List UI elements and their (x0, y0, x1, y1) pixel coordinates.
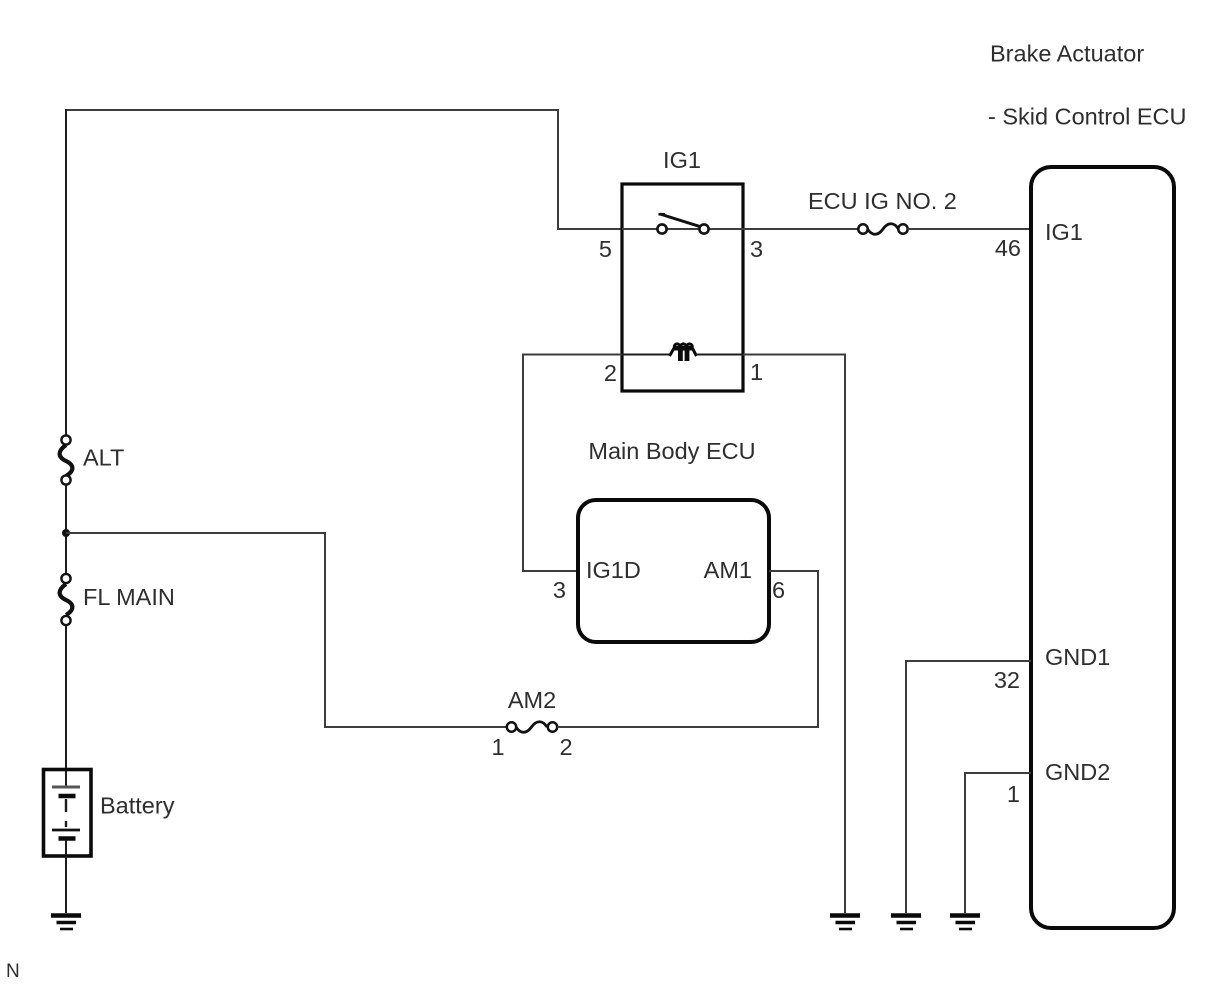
svg-text:1: 1 (1007, 781, 1020, 807)
Main Body ECU U2 (578, 500, 769, 642)
wire: left vertical bus from top to ALT fusible link (65, 109, 67, 436)
svg-text:2: 2 (604, 360, 617, 386)
wire: coil pin 2 to Main Body ECU IG1D (523, 355, 622, 572)
svg-text:N: N (6, 961, 20, 982)
ground: GND2 ground (950, 916, 980, 930)
svg-text:- Skid Control ECU: - Skid Control ECU (988, 104, 1187, 130)
wire: junction node to AM2 fuse (66, 533, 507, 727)
wire: switch pin 3 to fuse ECU IG NO. 2 (743, 228, 858, 230)
svg-text:IG1: IG1 (663, 147, 701, 173)
svg-text:6: 6 (772, 577, 785, 603)
wire: through ignition switch contacts (622, 228, 858, 230)
node: junction of ALT output and AM2 branch (62, 529, 70, 537)
wire: relay coil left segment (622, 354, 669, 356)
svg-text:FL MAIN: FL MAIN (83, 584, 175, 610)
ground: relay coil ground (830, 916, 860, 930)
svg-text:Battery: Battery (100, 793, 175, 819)
svg-text:1: 1 (491, 734, 504, 760)
ignition switch IG1 box (622, 184, 743, 391)
svg-text:32: 32 (994, 667, 1020, 693)
svg-text:5: 5 (599, 236, 612, 262)
svg-text:2: 2 (559, 734, 572, 760)
svg-text:IG1: IG1 (1045, 219, 1083, 245)
svg-text:3: 3 (750, 236, 763, 262)
wire: ALT to junction node (65, 484, 67, 574)
svg-text:AM2: AM2 (508, 687, 556, 713)
wire: GND2 pin 1 to ground (965, 773, 1031, 913)
svg-text:ALT: ALT (83, 445, 124, 471)
svg-text:GND1: GND1 (1045, 644, 1110, 670)
relay coil L1 (IG1 2-1) (670, 344, 697, 361)
fusible link ALT (60, 435, 73, 484)
fusible link FL MAIN (60, 574, 73, 625)
ground: battery ground (51, 916, 81, 930)
Brake Actuator - Skid Control ECU U1 (1031, 167, 1174, 928)
wire: GND1 pin 32 to ground (906, 661, 1031, 913)
fuse ECU IG NO. 2 (858, 224, 907, 235)
battery B1 (44, 770, 92, 857)
wire: AM2 fuse to Main Body ECU AM1 pin 6 (557, 571, 818, 727)
wire: battery positive feed to ignition switch pin 5 (66, 110, 622, 229)
svg-text:IG1D: IG1D (586, 557, 641, 583)
ground: GND1 ground (891, 916, 921, 930)
wire: fuse to skid control ECU pin 46 (908, 228, 1031, 230)
svg-text:46: 46 (995, 235, 1021, 261)
wire: battery negative to ground (65, 856, 67, 913)
wire: relay coil right segment (696, 354, 743, 356)
fuse AM2 (507, 722, 557, 733)
svg-text:ECU IG NO. 2: ECU IG NO. 2 (808, 188, 957, 214)
svg-text:GND2: GND2 (1045, 759, 1110, 785)
svg-text:Brake Actuator: Brake Actuator (990, 41, 1144, 67)
wire: FL MAIN to battery (65, 625, 67, 770)
svg-text:AM1: AM1 (704, 557, 752, 583)
wire: coil pin 1 to ground (743, 355, 845, 914)
svg-text:3: 3 (553, 577, 566, 603)
svg-text:Main Body ECU: Main Body ECU (588, 438, 755, 464)
svg-text:1: 1 (750, 359, 763, 385)
switch contact SW1 (IG1 5-3) (657, 214, 708, 234)
